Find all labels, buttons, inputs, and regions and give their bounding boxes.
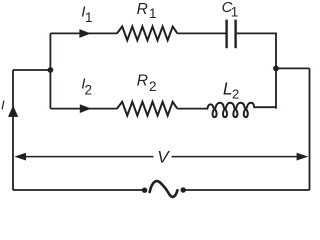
svg-text:2: 2 — [232, 86, 239, 101]
label L2 — [223, 78, 239, 101]
V arrow line right segment — [172, 156, 299, 158]
arrowhead I2 (bottom branch, right) — [80, 104, 91, 113]
wire: left inner vertical (node A column) — [49, 33, 51, 108]
V arrow line left segment — [24, 156, 154, 158]
svg-text:2: 2 — [149, 79, 157, 94]
label I1 — [81, 3, 92, 25]
wire: bottom branch middle segment (R2 to L2) — [177, 108, 207, 110]
svg-text:I: I — [1, 98, 5, 113]
node A junction dot — [48, 67, 54, 73]
label R2 — [137, 73, 157, 94]
resistor R1 — [117, 27, 177, 41]
svg-text:R: R — [137, 1, 148, 18]
svg-text:1: 1 — [85, 10, 93, 25]
AC source left terminal dot — [142, 188, 147, 193]
resistor R2 — [117, 102, 177, 116]
wire: top branch middle segment (R1 to C1 left plate) — [177, 32, 225, 34]
wire: top branch left segment — [50, 32, 117, 34]
wire: bottom rail right of source — [183, 189, 309, 191]
svg-text:V: V — [157, 148, 170, 167]
label I2 — [81, 76, 92, 98]
label C1 — [222, 0, 239, 19]
label V — [157, 148, 170, 167]
node B junction dot — [273, 66, 279, 72]
svg-text:1: 1 — [149, 6, 157, 21]
svg-text:2: 2 — [85, 83, 93, 98]
arrowhead I (left rail, up) — [8, 105, 18, 117]
arrowhead V left — [14, 153, 26, 161]
wire: bottom branch left segment — [50, 108, 117, 110]
wire: node A stub to left rail — [13, 69, 50, 71]
AC source sine wave — [150, 181, 178, 197]
label R1 — [137, 1, 157, 21]
inductor L2 — [207, 103, 254, 117]
wire: right outer rail — [309, 68, 311, 190]
AC source right terminal dot — [181, 187, 186, 192]
arrowhead I1 (top branch, right) — [79, 29, 90, 38]
wire: node B stub to right rail — [276, 67, 310, 69]
wire: top branch right segment (C1 right plate to corner) and right inner vertical — [237, 33, 276, 108]
capacitor C1 — [227, 20, 236, 49]
svg-text:1: 1 — [231, 4, 239, 19]
arrowhead V right — [297, 153, 309, 161]
wire: bottom branch right segment (L2 to right inner vertical) — [254, 106, 276, 108]
wire: left outer rail — [12, 70, 14, 190]
label I (left rail) — [1, 98, 5, 113]
wire: bottom rail left of source — [13, 189, 145, 191]
svg-text:R: R — [137, 73, 148, 90]
